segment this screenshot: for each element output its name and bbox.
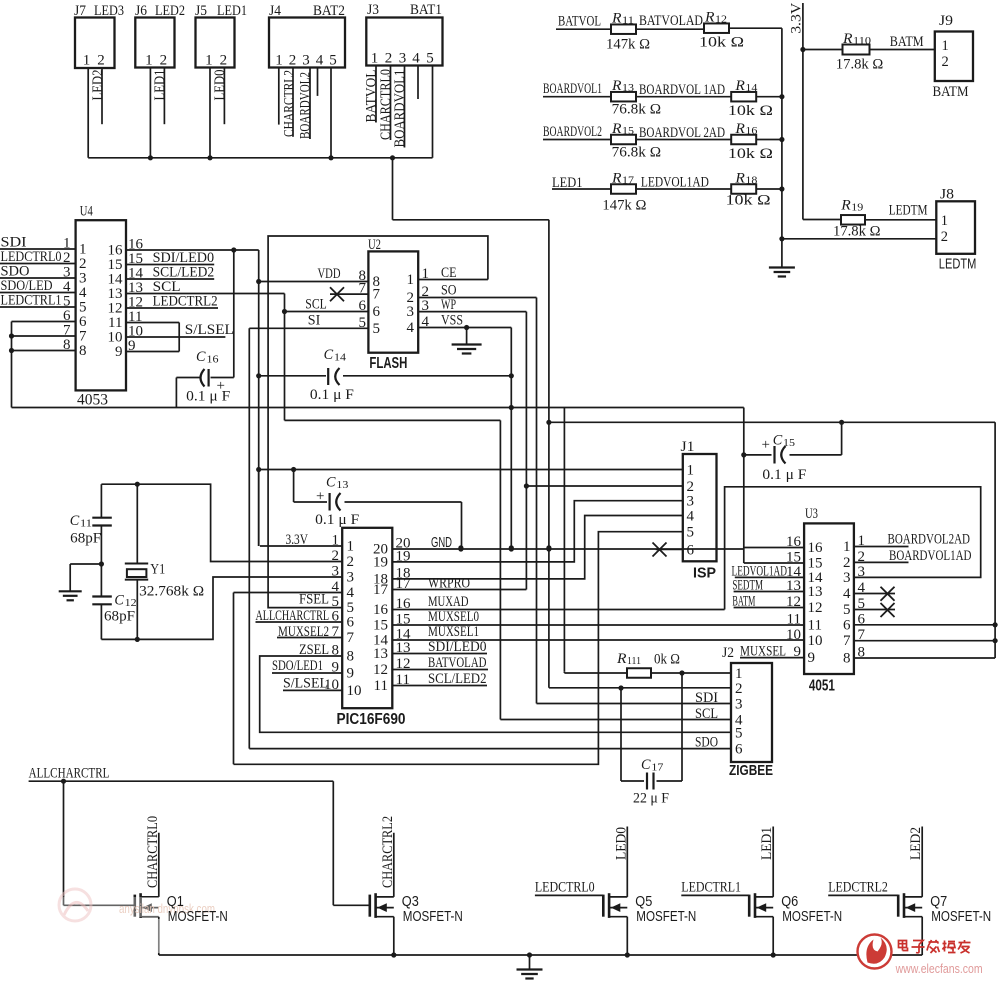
svg-text:U2: U2 — [368, 237, 381, 253]
svg-text:3: 3 — [302, 53, 310, 69]
svg-text:BATM: BATM — [890, 34, 924, 50]
svg-text:LEDCTRL2: LEDCTRL2 — [828, 880, 888, 896]
svg-text:8: 8 — [332, 643, 340, 659]
svg-text:17: 17 — [622, 175, 635, 187]
svg-text:U3: U3 — [805, 506, 818, 522]
svg-text:LEDCTRL0: LEDCTRL0 — [535, 880, 595, 896]
svg-text:68pF: 68pF — [70, 531, 101, 547]
svg-text:SDI/LED0: SDI/LED0 — [428, 639, 487, 655]
svg-text:LEDTM: LEDTM — [939, 257, 977, 273]
svg-text:147k Ω: 147k Ω — [602, 198, 646, 214]
svg-text:2: 2 — [735, 681, 743, 697]
svg-text:ZIGBEE: ZIGBEE — [729, 762, 773, 779]
svg-text:8: 8 — [79, 343, 87, 359]
svg-text:6: 6 — [373, 304, 381, 320]
svg-text:2: 2 — [385, 51, 393, 67]
svg-text:BATVOLAD: BATVOLAD — [428, 655, 487, 671]
svg-text:68pF: 68pF — [104, 609, 135, 625]
svg-text:76.8k Ω: 76.8k Ω — [612, 145, 662, 161]
svg-text:R: R — [842, 31, 853, 47]
svg-text:13: 13 — [336, 479, 349, 491]
svg-text:16: 16 — [786, 534, 802, 550]
svg-text:2: 2 — [687, 479, 695, 495]
svg-text:147k Ω: 147k Ω — [606, 37, 650, 53]
svg-text:SDO: SDO — [695, 735, 718, 751]
svg-text:LED0: LED0 — [613, 827, 629, 860]
svg-text:17.8k Ω: 17.8k Ω — [833, 224, 881, 240]
svg-text:MOSFET-N: MOSFET-N — [636, 909, 696, 925]
svg-text:C: C — [773, 433, 783, 449]
svg-text:18: 18 — [745, 175, 758, 187]
svg-text:1: 1 — [407, 272, 415, 288]
svg-text:3: 3 — [399, 51, 407, 67]
svg-text:R: R — [734, 121, 745, 137]
svg-text:MOSFET-N: MOSFET-N — [782, 909, 842, 925]
svg-text:6: 6 — [843, 617, 851, 633]
svg-text:R: R — [611, 11, 622, 27]
svg-text:J5: J5 — [195, 3, 207, 19]
svg-text:10: 10 — [808, 633, 823, 649]
svg-text:LEDTM: LEDTM — [889, 203, 928, 219]
svg-text:R: R — [734, 78, 745, 94]
svg-text:ZSEL: ZSEL — [299, 642, 329, 658]
svg-text:www.elecfans.com: www.elecfans.com — [895, 962, 983, 976]
svg-text:SCL: SCL — [305, 297, 327, 313]
svg-text:R: R — [840, 198, 851, 214]
svg-text:3: 3 — [843, 570, 851, 586]
svg-text:BATM: BATM — [732, 594, 755, 610]
svg-text:LEDVOL1AD: LEDVOL1AD — [641, 175, 709, 191]
svg-text:5: 5 — [426, 51, 434, 67]
svg-text:1: 1 — [422, 266, 430, 282]
svg-text:J1: J1 — [681, 439, 695, 455]
svg-text:1: 1 — [347, 539, 355, 555]
svg-text:MUXSEL2: MUXSEL2 — [278, 624, 329, 640]
svg-text:BOARDVOL 1AD: BOARDVOL 1AD — [639, 82, 725, 98]
svg-text:13: 13 — [373, 646, 388, 662]
svg-text:0k Ω: 0k Ω — [654, 652, 680, 668]
svg-text:SDI: SDI — [695, 690, 718, 706]
svg-text:S/LSEL: S/LSEL — [185, 322, 234, 338]
svg-text:1: 1 — [371, 51, 379, 67]
svg-text:WP: WP — [441, 297, 456, 313]
svg-text:LED3: LED3 — [94, 3, 124, 19]
svg-text:ALLCHARCTRL: ALLCHARCTRL — [256, 608, 330, 624]
svg-text:11: 11 — [808, 617, 822, 633]
svg-text:Q6: Q6 — [781, 894, 798, 910]
svg-text:R: R — [616, 651, 627, 667]
svg-text:R: R — [704, 10, 715, 26]
svg-text:7: 7 — [332, 624, 340, 640]
svg-text:9: 9 — [794, 644, 802, 660]
svg-text:C: C — [326, 474, 336, 490]
svg-text:BOARDVOL2: BOARDVOL2 — [543, 124, 602, 140]
svg-text:5: 5 — [359, 315, 367, 331]
svg-text:5: 5 — [329, 53, 337, 69]
svg-text:BAT2: BAT2 — [313, 3, 345, 19]
svg-text:16: 16 — [396, 596, 412, 612]
svg-text:9: 9 — [808, 650, 816, 666]
svg-text:0.1 μ F: 0.1 μ F — [186, 389, 230, 405]
svg-text:6: 6 — [347, 615, 355, 631]
svg-text:16: 16 — [207, 354, 220, 366]
svg-text:0.1 μ F: 0.1 μ F — [762, 467, 806, 483]
svg-text:8: 8 — [858, 645, 866, 661]
svg-text:9: 9 — [332, 660, 340, 676]
svg-text:PIC16F690: PIC16F690 — [337, 711, 406, 728]
svg-text:19: 19 — [396, 549, 411, 565]
svg-text:Q1: Q1 — [167, 894, 184, 910]
svg-text:7: 7 — [373, 287, 381, 303]
svg-text:5: 5 — [735, 725, 743, 741]
svg-text:BATVOL: BATVOL — [558, 14, 601, 30]
svg-text:4: 4 — [858, 580, 866, 596]
svg-text:17: 17 — [651, 762, 664, 774]
svg-text:2: 2 — [941, 229, 948, 245]
svg-text:FSEL: FSEL — [299, 592, 329, 608]
svg-text:Q3: Q3 — [402, 894, 419, 910]
svg-text:Y1: Y1 — [150, 562, 165, 578]
svg-text:LED1: LED1 — [152, 70, 168, 101]
svg-text:C: C — [641, 757, 651, 773]
svg-text:LED0: LED0 — [212, 70, 228, 101]
svg-text:14: 14 — [745, 82, 758, 94]
svg-text:12: 12 — [373, 662, 388, 678]
svg-text:3: 3 — [735, 697, 743, 713]
svg-text:16: 16 — [808, 540, 824, 556]
svg-text:J3: J3 — [367, 2, 379, 18]
svg-text:Q7: Q7 — [930, 894, 947, 910]
svg-text:1: 1 — [83, 53, 91, 69]
svg-text:J6: J6 — [135, 3, 147, 19]
svg-text:11: 11 — [622, 15, 634, 27]
svg-text:10k Ω: 10k Ω — [726, 193, 771, 209]
svg-text:11: 11 — [80, 518, 92, 530]
svg-text:LED2: LED2 — [90, 70, 106, 101]
svg-text:12: 12 — [786, 594, 801, 610]
svg-text:7: 7 — [858, 627, 866, 643]
svg-text:BOARDVOL1: BOARDVOL1 — [392, 70, 408, 148]
svg-text:4: 4 — [687, 509, 695, 525]
svg-text:3: 3 — [332, 564, 340, 580]
svg-text:7: 7 — [347, 630, 355, 646]
svg-text:13: 13 — [808, 584, 823, 600]
svg-text:U4: U4 — [80, 203, 93, 219]
svg-text:3: 3 — [687, 494, 695, 510]
svg-text:2: 2 — [843, 555, 851, 571]
svg-text:C: C — [196, 349, 206, 365]
svg-text:R: R — [611, 171, 622, 187]
svg-text:R: R — [611, 121, 622, 137]
svg-text:SCL: SCL — [695, 706, 718, 722]
svg-text:VDD: VDD — [318, 266, 341, 282]
svg-text:11: 11 — [374, 678, 388, 694]
svg-text:9: 9 — [347, 666, 355, 682]
svg-text:15: 15 — [396, 612, 411, 628]
svg-text:5: 5 — [373, 321, 381, 337]
svg-text:8: 8 — [63, 337, 71, 353]
svg-text:SCL/LED2: SCL/LED2 — [428, 671, 487, 687]
svg-text:ISP: ISP — [693, 565, 716, 582]
svg-text:J8: J8 — [940, 187, 954, 203]
svg-text:MUXSEL0: MUXSEL0 — [428, 609, 479, 625]
svg-text:4: 4 — [407, 320, 415, 336]
svg-text:BOARDVOL2: BOARDVOL2 — [298, 72, 314, 139]
svg-text:LEDCTRL1: LEDCTRL1 — [1, 293, 62, 309]
svg-text:BATVOLAD: BATVOLAD — [639, 13, 703, 29]
svg-text:2: 2 — [858, 549, 866, 565]
svg-text:SEDTM: SEDTM — [732, 578, 763, 594]
svg-text:LED2: LED2 — [155, 3, 185, 19]
svg-text:1: 1 — [941, 213, 948, 229]
svg-text:8: 8 — [347, 649, 355, 665]
svg-text:CHARCTRL2: CHARCTRL2 — [282, 70, 298, 137]
svg-text:BATM: BATM — [933, 84, 969, 100]
svg-text:11: 11 — [396, 672, 410, 688]
svg-text:C: C — [70, 513, 80, 529]
svg-text:10: 10 — [347, 683, 362, 699]
svg-text:10k Ω: 10k Ω — [728, 146, 773, 162]
svg-text:J7: J7 — [74, 3, 86, 19]
svg-text:16: 16 — [373, 602, 389, 618]
svg-text:R: R — [734, 171, 745, 187]
svg-text:MUXSEL1: MUXSEL1 — [428, 624, 479, 640]
svg-text:1: 1 — [332, 533, 340, 549]
svg-text:12: 12 — [125, 597, 137, 609]
svg-text:C: C — [114, 593, 124, 609]
svg-text:3: 3 — [858, 564, 866, 580]
svg-text:J9: J9 — [939, 13, 953, 29]
svg-text:10k Ω: 10k Ω — [728, 103, 773, 119]
svg-text:12: 12 — [808, 600, 823, 616]
svg-text:3.3V: 3.3V — [789, 3, 805, 34]
svg-text:+: + — [762, 437, 770, 453]
svg-text:LED1: LED1 — [552, 175, 583, 191]
svg-text:BOARDVOL 2AD: BOARDVOL 2AD — [639, 125, 725, 141]
svg-text:3: 3 — [422, 298, 430, 314]
svg-text:+: + — [316, 489, 324, 505]
svg-text:10: 10 — [786, 627, 801, 643]
svg-text:2: 2 — [942, 54, 949, 70]
svg-text:1: 1 — [687, 463, 695, 479]
svg-text:2: 2 — [332, 548, 340, 564]
svg-text:6: 6 — [332, 609, 340, 625]
svg-text:2: 2 — [220, 53, 228, 69]
svg-text:9: 9 — [115, 344, 123, 360]
svg-text:19: 19 — [373, 555, 388, 571]
svg-text:17.8k Ω: 17.8k Ω — [836, 57, 884, 73]
svg-text:MUXSEL: MUXSEL — [740, 644, 786, 660]
svg-text:17: 17 — [373, 582, 389, 598]
svg-text:4: 4 — [422, 314, 430, 330]
svg-text:3: 3 — [407, 304, 415, 320]
svg-text:6: 6 — [687, 542, 695, 558]
svg-text:32.768k Ω: 32.768k Ω — [139, 584, 204, 600]
svg-text:13: 13 — [786, 578, 801, 594]
svg-text:6: 6 — [735, 742, 743, 758]
svg-text:LED2: LED2 — [908, 827, 924, 860]
svg-text:11: 11 — [787, 611, 801, 627]
svg-text:111: 111 — [627, 655, 641, 667]
svg-text:1: 1 — [205, 53, 213, 69]
svg-text:76.8k Ω: 76.8k Ω — [612, 102, 662, 118]
svg-text:6: 6 — [858, 611, 866, 627]
svg-text:BOARDVOL1AD: BOARDVOL1AD — [889, 548, 972, 564]
svg-text:4: 4 — [412, 51, 420, 67]
svg-text:WRPRO: WRPRO — [428, 576, 470, 592]
svg-text:2: 2 — [160, 53, 168, 69]
svg-text:MOSFET-N: MOSFET-N — [403, 909, 463, 925]
svg-text:MOSFET-N: MOSFET-N — [168, 909, 228, 925]
svg-text:CHARCTRL0: CHARCTRL0 — [145, 816, 161, 888]
svg-text:3: 3 — [347, 570, 355, 586]
svg-text:1: 1 — [858, 533, 866, 549]
svg-text:16: 16 — [745, 125, 758, 137]
svg-text:12: 12 — [396, 656, 411, 672]
svg-text:CHARCTRL2: CHARCTRL2 — [380, 816, 396, 888]
svg-text:1: 1 — [942, 38, 949, 54]
svg-text:15: 15 — [783, 437, 796, 449]
svg-text:1: 1 — [275, 53, 283, 69]
svg-text:FLASH: FLASH — [369, 355, 407, 372]
svg-text:12: 12 — [715, 14, 727, 26]
svg-text:5: 5 — [843, 602, 851, 618]
svg-text:4051: 4051 — [809, 678, 835, 695]
svg-text:4: 4 — [316, 53, 324, 69]
svg-text:SI: SI — [308, 313, 321, 329]
svg-text:14: 14 — [334, 352, 347, 364]
svg-text:BAT1: BAT1 — [410, 2, 442, 18]
svg-text:19: 19 — [851, 202, 864, 214]
svg-text:CE: CE — [441, 265, 457, 281]
svg-text:7: 7 — [359, 281, 367, 297]
svg-text:15: 15 — [622, 125, 635, 137]
svg-text:4: 4 — [843, 586, 851, 602]
svg-text:5: 5 — [687, 525, 695, 541]
svg-text:MOSFET-N: MOSFET-N — [931, 909, 991, 925]
svg-text:BOARDVOL2AD: BOARDVOL2AD — [888, 532, 971, 548]
svg-text:C: C — [324, 347, 334, 363]
svg-text:13: 13 — [622, 82, 635, 94]
svg-text:0.1 μ F: 0.1 μ F — [310, 387, 354, 403]
svg-text:VSS: VSS — [441, 313, 463, 329]
svg-text:MUXAD: MUXAD — [428, 594, 469, 610]
svg-text:0.1 μ F: 0.1 μ F — [315, 512, 359, 528]
svg-text:4: 4 — [347, 585, 355, 601]
svg-text:110: 110 — [853, 35, 872, 47]
svg-text:LEDCTRL2: LEDCTRL2 — [153, 294, 218, 310]
svg-text:3.3V: 3.3V — [286, 532, 309, 548]
svg-text:10k Ω: 10k Ω — [699, 35, 744, 51]
svg-text:4053: 4053 — [77, 391, 108, 408]
svg-text:4: 4 — [332, 579, 340, 595]
svg-text:22 μ F: 22 μ F — [633, 791, 669, 807]
svg-text:15: 15 — [373, 618, 388, 634]
svg-text:Q5: Q5 — [635, 894, 652, 910]
svg-text:J4: J4 — [269, 3, 281, 19]
svg-text:2: 2 — [289, 53, 297, 69]
svg-text:LEDCTRL1: LEDCTRL1 — [681, 880, 741, 896]
svg-text:6: 6 — [359, 298, 367, 314]
svg-text:1: 1 — [145, 53, 153, 69]
svg-text:J2: J2 — [722, 645, 734, 661]
svg-text:GND: GND — [431, 534, 452, 551]
svg-text:SDO/LED1: SDO/LED1 — [272, 658, 323, 674]
svg-text:BOARDVOL1: BOARDVOL1 — [543, 81, 602, 97]
svg-text:ALLCHARCTRL: ALLCHARCTRL — [29, 766, 110, 782]
svg-text:LED1: LED1 — [759, 827, 775, 860]
svg-text:7: 7 — [843, 633, 851, 649]
svg-text:17: 17 — [396, 576, 412, 592]
svg-text:13: 13 — [396, 640, 411, 656]
svg-text:8: 8 — [843, 651, 851, 667]
svg-text:1: 1 — [735, 666, 743, 682]
svg-text:1: 1 — [843, 539, 851, 555]
svg-text:5: 5 — [858, 596, 866, 612]
svg-text:LED1: LED1 — [217, 3, 247, 19]
svg-text:S/LSEL: S/LSEL — [283, 676, 328, 692]
svg-text:2: 2 — [347, 554, 355, 570]
svg-text:9: 9 — [128, 338, 136, 354]
svg-text:R: R — [611, 78, 622, 94]
svg-text:2: 2 — [97, 53, 105, 69]
